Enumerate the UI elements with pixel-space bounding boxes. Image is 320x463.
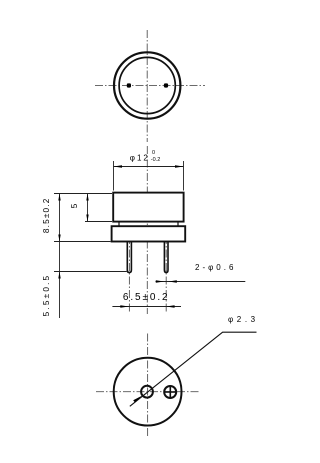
svg-text:φ12: φ12: [130, 154, 150, 163]
svg-text:2-φ0.6: 2-φ0.6: [195, 263, 236, 272]
svg-text:-0.2: -0.2: [151, 157, 160, 163]
svg-text:5.5±0.5: 5.5±0.5: [42, 274, 51, 317]
svg-text:5: 5: [70, 203, 79, 208]
svg-text:0: 0: [152, 150, 155, 156]
svg-text:6.5±0.2: 6.5±0.2: [123, 292, 170, 303]
svg-text:φ2.3: φ2.3: [228, 315, 259, 324]
svg-text:8.5±0.2: 8.5±0.2: [42, 197, 51, 233]
